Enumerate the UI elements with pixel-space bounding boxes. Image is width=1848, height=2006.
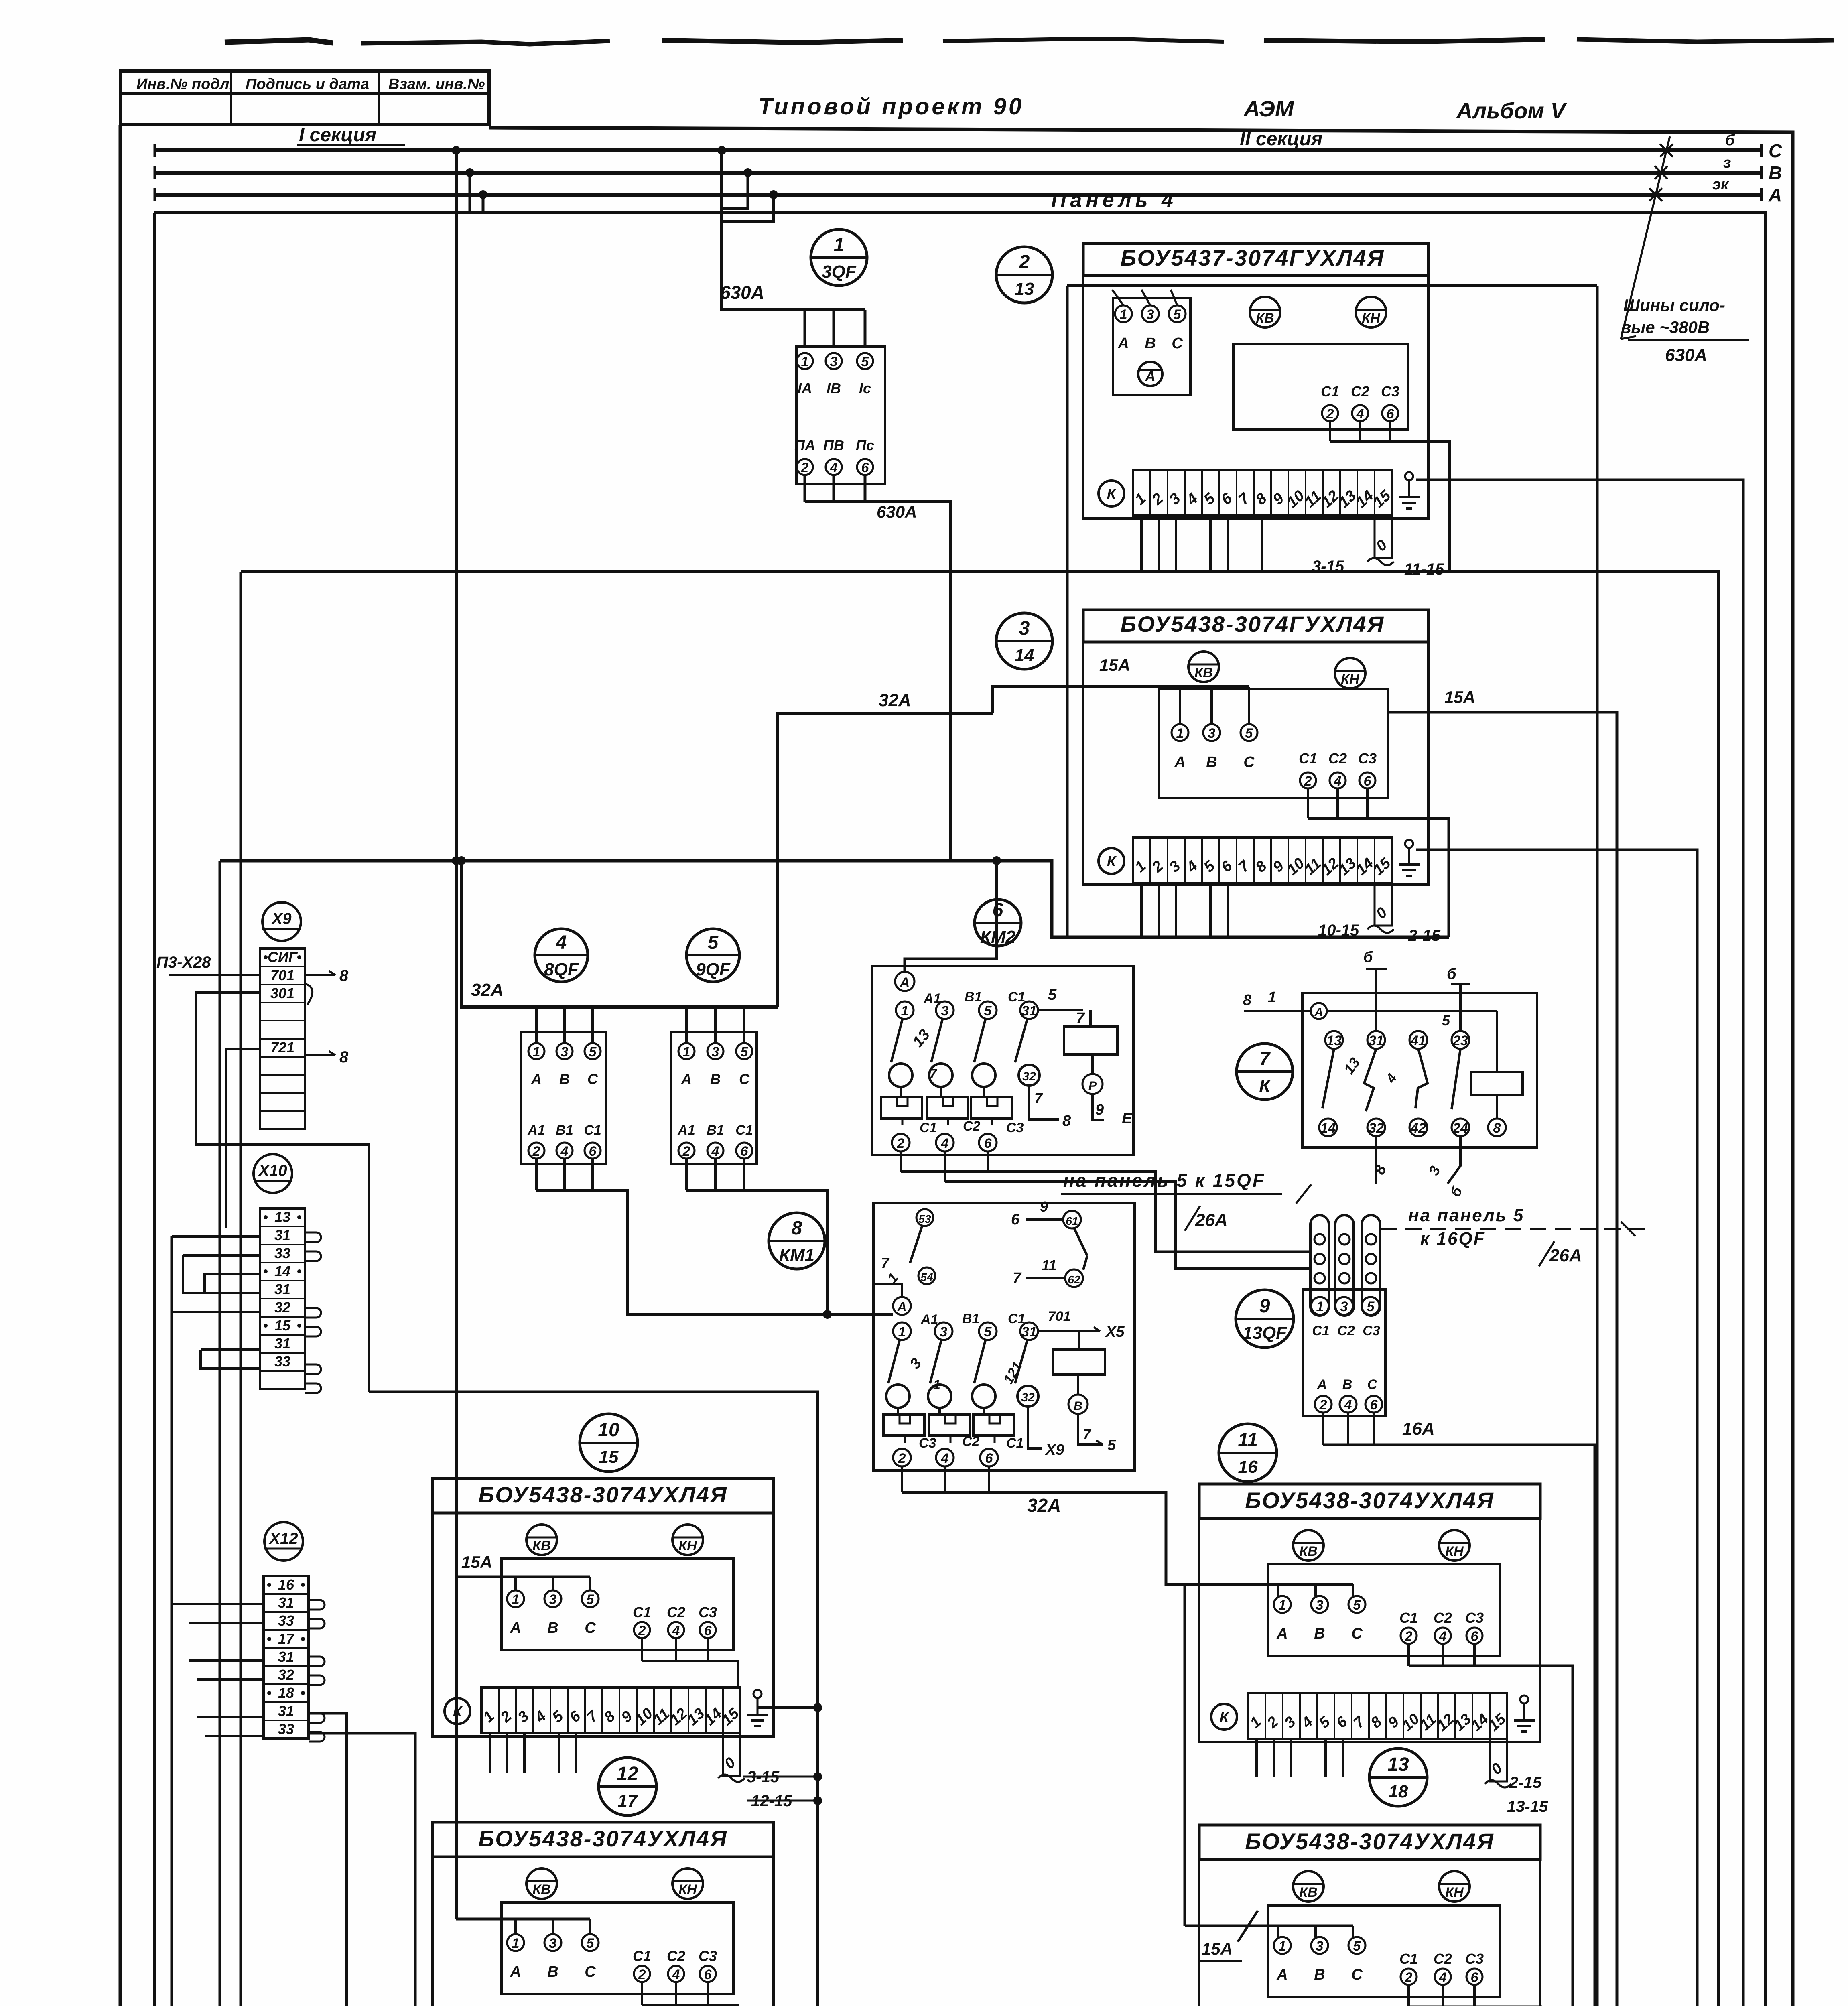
svg-text:2: 2 — [801, 460, 809, 475]
wire: right boundary vertical x=3981 — [1596, 286, 1599, 2006]
svg-text:1: 1 — [898, 1324, 906, 1340]
svg-text:С2: С2 — [667, 1604, 685, 1620]
connector strip Х12 — [264, 1576, 309, 1738]
wire: bundle line L1 to right column — [241, 572, 1719, 2006]
svg-text:9QF: 9QF — [696, 960, 731, 979]
svg-text:А: А — [1314, 1006, 1323, 1019]
svg-text:15А: 15А — [461, 1553, 492, 1572]
svg-text:С1: С1 — [1006, 1435, 1024, 1451]
svg-text:6: 6 — [589, 1144, 597, 1159]
svg-text:6: 6 — [1364, 774, 1372, 789]
connector Х10 position circle — [254, 1154, 292, 1193]
svg-text:С2: С2 — [1434, 1951, 1452, 1967]
svg-text:С3: С3 — [1006, 1120, 1024, 1135]
connector Х9 position circle — [262, 902, 301, 941]
svg-text:В: В — [547, 1620, 558, 1636]
svg-text:14: 14 — [1320, 1121, 1336, 1136]
pins 1,3,5 (А В С) of unit 17 — [507, 1934, 524, 1951]
indicator lamp КВ of unit 17 — [526, 1868, 557, 1899]
wire: 9QF output bundle — [685, 1159, 688, 1190]
svg-text:В: В — [1206, 754, 1217, 771]
wires: КМ1 contacts to thermal elements — [897, 1408, 899, 1415]
svg-text:Х9: Х9 — [1045, 1442, 1064, 1458]
svg-text:В1: В1 — [556, 1123, 573, 1138]
svg-text:С3: С3 — [1358, 750, 1377, 767]
wire: relay К up-wires with б labels — [1375, 969, 1377, 1031]
svg-text:2: 2 — [1405, 1970, 1413, 1985]
svg-text:6: 6 — [1471, 1629, 1479, 1644]
svg-text:3: 3 — [830, 354, 838, 370]
wire: riser to К3 — [309, 1733, 415, 2006]
contactor position circle 6/КМ2 — [975, 899, 1021, 946]
relay К bottom pins 14,32,42,24,8 — [1319, 1119, 1337, 1136]
svg-text:К: К — [1107, 853, 1117, 869]
svg-text:630А: 630А — [1665, 345, 1707, 365]
unit 17 control block БОУ5438-3074УХЛ4Я — [433, 1822, 774, 1857]
svg-text:8: 8 — [1062, 1113, 1071, 1129]
svg-text:В: В — [1074, 1399, 1082, 1413]
svg-text:1: 1 — [512, 1592, 520, 1607]
position circle 13/18 — [1369, 1748, 1427, 1806]
svg-text:С3: С3 — [699, 1948, 717, 1964]
svg-text:1: 1 — [801, 354, 809, 370]
svg-text:С2: С2 — [1434, 1610, 1452, 1626]
svg-text:32: 32 — [278, 1667, 294, 1683]
КМ2 pins А1 В1 С1 row — [896, 1001, 914, 1019]
svg-text:42: 42 — [1410, 1121, 1426, 1136]
svg-text:B: B — [1769, 162, 1782, 183]
wire: cell 0 squiggle of unit 15 — [718, 1775, 745, 1782]
wire: X10 left U-loop — [205, 1274, 260, 1293]
svg-text:13: 13 — [274, 1209, 290, 1225]
svg-text:В: В — [710, 1071, 721, 1087]
svg-text:КВ: КВ — [532, 1882, 550, 1897]
inner box of unit 15 — [502, 1559, 733, 1650]
svg-text:С1: С1 — [1321, 383, 1339, 400]
svg-text:А: А — [510, 1620, 521, 1636]
svg-text:3: 3 — [941, 1003, 949, 1019]
КМ2 coil — [1064, 1027, 1117, 1054]
svg-text:КВ: КВ — [1299, 1885, 1317, 1900]
svg-text:6: 6 — [704, 1623, 712, 1639]
svg-text:2: 2 — [897, 1136, 905, 1151]
terminal box with pins 1,3,5 of unit 13 — [1113, 298, 1190, 395]
svg-text:б: б — [1363, 949, 1373, 966]
svg-text:2-15: 2-15 — [1509, 1774, 1542, 1791]
svg-text:С1: С1 — [633, 1604, 651, 1620]
value label 26А (к 15QF) — [1185, 1206, 1200, 1231]
wire: КМ1 В down to 5 — [1078, 1414, 1103, 1444]
svg-text:11: 11 — [1238, 1429, 1258, 1451]
svg-text:701: 701 — [1048, 1309, 1071, 1324]
svg-text:А: А — [1317, 1377, 1327, 1392]
wire: left vertical x=600 — [240, 572, 242, 2006]
svg-text:8: 8 — [1493, 1121, 1501, 1136]
svg-text:К: К — [453, 1703, 463, 1720]
node: bus C tap x=1137 — [452, 146, 461, 155]
contactor КМ1 block — [873, 1203, 1135, 1470]
svg-text:С2: С2 — [1328, 750, 1347, 767]
wire: cell 0 squiggle of unit 14 — [1367, 926, 1394, 933]
wire: stub A to panel top — [482, 195, 485, 213]
wire: 9QF input stubs — [685, 1007, 688, 1043]
svg-text:2: 2 — [1319, 1397, 1327, 1413]
note: Шины силовые ~380В 630А with leader — [1621, 136, 1670, 339]
svg-text:1: 1 — [1268, 989, 1276, 1006]
svg-text:б: б — [1447, 966, 1457, 983]
svg-text:13: 13 — [1326, 1033, 1342, 1048]
svg-text:7: 7 — [1013, 1270, 1022, 1287]
svg-text:7: 7 — [1083, 1427, 1092, 1442]
indicator lamp КВ of unit 14 — [1188, 652, 1219, 682]
svg-text:КВ: КВ — [1256, 311, 1274, 326]
svg-text:31: 31 — [278, 1649, 294, 1665]
svg-text:14: 14 — [274, 1263, 290, 1279]
svg-text:6: 6 — [1471, 1970, 1479, 1985]
indicator lamp КВ of unit 13 — [1250, 297, 1280, 327]
unit 13 control block БОУ5437-3074ГУХЛ4Я — [1083, 244, 1428, 276]
svg-text:15: 15 — [599, 1447, 619, 1467]
svg-text:4: 4 — [830, 460, 838, 475]
svg-text:I секция: I секция — [299, 124, 376, 146]
svg-text:4: 4 — [672, 1623, 680, 1639]
svg-text:5: 5 — [984, 1003, 992, 1019]
svg-text:С: С — [585, 1963, 596, 1980]
svg-text:5: 5 — [1174, 307, 1182, 322]
svg-text:1: 1 — [933, 1377, 940, 1392]
svg-text:КН: КН — [678, 1538, 697, 1553]
svg-text:31: 31 — [278, 1594, 294, 1611]
svg-text:18: 18 — [1389, 1782, 1408, 1801]
pins 1,3,5 (А В С) of unit 15 — [507, 1590, 524, 1607]
connector strip Х9 — [260, 948, 305, 1129]
svg-text:1: 1 — [1316, 1299, 1324, 1314]
wire: 3QF feeder from buses — [722, 173, 748, 209]
svg-text:4: 4 — [1439, 1629, 1447, 1644]
wires: Х12 row connections — [172, 1603, 264, 1605]
pins 1,3,5 (А В С) of unit 16 — [1274, 1596, 1291, 1613]
svg-text:6: 6 — [985, 1451, 993, 1466]
svg-text:5: 5 — [741, 1044, 749, 1060]
svg-text:5: 5 — [1245, 726, 1253, 741]
svg-text:С3: С3 — [919, 1435, 936, 1451]
svg-text:Х10: Х10 — [258, 1162, 287, 1180]
svg-text:С: С — [1351, 1625, 1363, 1642]
svg-text:БОУ5438-3074ГУХЛ4Я: БОУ5438-3074ГУХЛ4Я — [1121, 611, 1385, 637]
svg-text:Пс: Пс — [856, 437, 874, 453]
svg-text:1: 1 — [901, 1003, 909, 1019]
svg-text:Р: Р — [1088, 1079, 1097, 1092]
wire: cell 0 to bundle of unit 13 — [1367, 558, 1394, 565]
svg-text:С3: С3 — [1465, 1951, 1484, 1967]
svg-text:А: А — [510, 1963, 521, 1980]
position circle 3/14 — [996, 613, 1052, 669]
wire: КМ2 32 down to 8 — [1029, 1086, 1059, 1119]
svg-text:Е: Е — [1122, 1110, 1133, 1127]
svg-text:С1: С1 — [1312, 1323, 1329, 1338]
circuit breaker QF1 position circle 1/3QF — [811, 229, 867, 286]
svg-text:6: 6 — [704, 1967, 712, 1982]
svg-text:В: В — [1145, 335, 1156, 352]
svg-text:17: 17 — [278, 1630, 295, 1647]
wire: relay К feed with labels 8,1 — [1244, 1010, 1311, 1012]
bus A — [155, 193, 1761, 197]
wires: strip stubs of unit 16 — [1255, 1739, 1258, 1777]
svg-text:4: 4 — [1439, 1970, 1447, 1985]
svg-text:C: C — [1769, 140, 1782, 161]
node: bus A tap x=1204 — [479, 190, 487, 199]
wire: cell 0 squiggle of unit 16 — [1485, 1780, 1511, 1787]
pins 1,3,5 (А В С) of unit 18 — [1274, 1937, 1291, 1954]
svg-text:5: 5 — [984, 1324, 992, 1340]
indicator lamp КН of unit 16 — [1439, 1530, 1470, 1561]
svg-text:2: 2 — [1326, 406, 1334, 422]
svg-text:2: 2 — [682, 1144, 690, 1159]
bus B — [155, 171, 1761, 175]
circuit breaker position circle 9/13QF — [1236, 1290, 1294, 1348]
indicator lamp КН of unit 13 — [1356, 297, 1386, 327]
svg-text:3: 3 — [1147, 307, 1154, 322]
relay position circle 7/К — [1237, 1044, 1293, 1100]
wires: КМ2 contacts to thermal elements — [900, 1087, 902, 1097]
svg-text:54: 54 — [920, 1271, 933, 1283]
svg-text:4: 4 — [711, 1144, 719, 1159]
svg-text:Подпись и дата: Подпись и дата — [246, 76, 369, 93]
svg-text:14: 14 — [1015, 646, 1034, 665]
svg-text:15: 15 — [274, 1317, 291, 1334]
svg-text:9: 9 — [1040, 1198, 1048, 1215]
КМ1 auxiliary circle В — [1068, 1395, 1088, 1414]
svg-text:А1: А1 — [920, 1312, 938, 1327]
inner box of unit 17 — [502, 1902, 733, 1994]
svg-text:В1: В1 — [707, 1123, 724, 1138]
КМ1 pins А1 В1 С1 row — [893, 1322, 911, 1340]
svg-text:3: 3 — [712, 1044, 719, 1060]
terminal strip К of unit 15 — [481, 1687, 740, 1733]
svg-text:6: 6 — [1387, 406, 1395, 422]
wires: strip stubs of unit 14 — [1140, 883, 1143, 937]
svg-text:ПВ: ПВ — [823, 437, 844, 453]
svg-text:7: 7 — [1034, 1090, 1043, 1107]
svg-text:С: С — [1367, 1377, 1377, 1392]
svg-text:С2: С2 — [667, 1948, 685, 1964]
svg-text:А: А — [1276, 1966, 1288, 1983]
wire: 3QF output bundle — [804, 475, 806, 501]
wire: left riser x=428 (to К2) — [171, 1236, 173, 2006]
circuit breaker 8QF block — [521, 1032, 606, 1164]
svg-text:А: А — [1276, 1625, 1288, 1642]
torn paper top edge — [225, 39, 1834, 44]
svg-text:8: 8 — [1243, 992, 1252, 1009]
svg-text:3QF: 3QF — [822, 262, 857, 282]
svg-text:С3: С3 — [1465, 1610, 1484, 1626]
position circle 11/16 — [1219, 1424, 1277, 1482]
indicator lamp КН of unit 14 — [1335, 658, 1365, 688]
svg-text:А: А — [1768, 185, 1782, 205]
svg-text:С: С — [585, 1620, 596, 1636]
connector hooks of Х12 — [309, 1600, 325, 1610]
node: bus B tap for 3QF — [743, 168, 752, 177]
wire: relay А to coil — [1327, 1010, 1497, 1012]
svg-text:5: 5 — [861, 354, 869, 370]
svg-text:13-15: 13-15 — [1507, 1798, 1548, 1815]
svg-text:26А: 26А — [1549, 1246, 1582, 1265]
position circle 12/17 — [599, 1758, 656, 1815]
svg-text:7: 7 — [1259, 1048, 1271, 1070]
svg-text:3: 3 — [549, 1936, 557, 1951]
svg-text:2: 2 — [638, 1623, 646, 1639]
inner box of unit 18 — [1268, 1905, 1500, 1997]
svg-text:КВ: КВ — [1299, 1544, 1317, 1559]
svg-text:СИГ: СИГ — [268, 949, 298, 965]
wire: relay К pin 32 down, label 8 — [1375, 1136, 1377, 1184]
svg-text:II секция: II секция — [1240, 128, 1322, 150]
svg-text:КН: КН — [678, 1882, 697, 1897]
wire: КМ1 output bundle 32А — [901, 1466, 903, 1492]
svg-text:Шины сило-: Шины сило- — [1623, 296, 1725, 315]
svg-text:5: 5 — [1353, 1598, 1361, 1613]
svg-text:Iс: Iс — [859, 380, 871, 396]
svg-text:эк: эк — [1712, 176, 1729, 193]
wire: relay К pin 24 down, labels 3 б — [1448, 1136, 1460, 1184]
svg-text:13: 13 — [1387, 1754, 1409, 1775]
svg-text:53: 53 — [918, 1213, 931, 1225]
wire: feed 15А to unit 18 with break mark — [1185, 1925, 1353, 1927]
svg-text:1: 1 — [1279, 1939, 1286, 1954]
svg-text:62: 62 — [1068, 1273, 1080, 1286]
terminal А of relay К — [1311, 1003, 1327, 1019]
svg-text:В: В — [559, 1071, 570, 1087]
wire: feed to unit 16 — [1185, 1583, 1353, 1586]
svg-text:4: 4 — [941, 1136, 949, 1151]
svg-text:6: 6 — [984, 1136, 992, 1151]
svg-text:31: 31 — [274, 1335, 290, 1352]
svg-text:А: А — [1145, 368, 1156, 384]
svg-text:15А: 15А — [1099, 656, 1130, 674]
svg-text:С2: С2 — [963, 1119, 981, 1134]
indicator lamp КВ of unit 18 — [1293, 1871, 1324, 1902]
svg-text:31: 31 — [274, 1227, 290, 1243]
svg-text:24: 24 — [1452, 1121, 1468, 1136]
wire: unit 18 pins 2,4,6 bundle — [1407, 1985, 1410, 2006]
svg-text:2: 2 — [638, 1967, 646, 1982]
svg-text:31: 31 — [274, 1281, 290, 1297]
svg-text:5: 5 — [589, 1044, 597, 1060]
svg-text:С: С — [587, 1071, 598, 1087]
svg-text:2: 2 — [1019, 252, 1030, 273]
wire: 13QF output bundle 16А — [1322, 1413, 1324, 1445]
wire: unit 14 ground wire to right column — [1416, 850, 1697, 2006]
svg-text:3: 3 — [940, 1324, 948, 1340]
wires: strip stubs of unit 15 — [489, 1733, 491, 1773]
svg-text:32А: 32А — [1027, 1495, 1061, 1516]
svg-text:32: 32 — [1021, 1391, 1035, 1404]
svg-text:4: 4 — [1334, 774, 1342, 789]
svg-text:15А: 15А — [1444, 688, 1475, 707]
wire: left vertical x=548 down to bottom — [220, 861, 754, 2006]
wire: 32А feeder from breakers to unit 14 — [778, 713, 993, 1007]
svg-text:вые ~380В: вые ~380В — [1621, 318, 1710, 337]
svg-text:ПА: ПА — [794, 437, 815, 453]
svg-text:1: 1 — [1120, 307, 1127, 322]
panel 4 enclosure frame — [154, 213, 1765, 2006]
svg-text:32: 32 — [274, 1299, 290, 1316]
svg-text:К: К — [1259, 1076, 1271, 1096]
wire: Х9 row 721 to left riser — [226, 1049, 260, 1228]
svg-text:31: 31 — [1021, 1003, 1037, 1019]
svg-text:41: 41 — [1410, 1033, 1426, 1048]
svg-text:3: 3 — [1316, 1939, 1324, 1954]
wire: long vertical feeder x=1137 — [455, 150, 458, 1919]
svg-text:5: 5 — [587, 1592, 595, 1607]
inner box of unit 13 — [1233, 344, 1408, 430]
wire: КМ2 output bundle to connector — [900, 1151, 902, 1172]
inner box of unit 16 — [1268, 1564, 1500, 1656]
indicator lamp КН of unit 15 — [672, 1525, 703, 1555]
svg-text:1: 1 — [683, 1044, 690, 1060]
svg-text:А: А — [900, 975, 910, 990]
svg-text:В1: В1 — [965, 989, 982, 1005]
svg-text:А: А — [897, 1299, 906, 1314]
wire: riser to К15-1 — [309, 1713, 347, 2006]
svg-text:С1: С1 — [584, 1123, 601, 1138]
wire: Х9 row 301 to left riser — [196, 993, 369, 1392]
connector strip Х10 — [260, 1208, 305, 1389]
svg-text:1: 1 — [834, 234, 845, 256]
svg-text:С: С — [1351, 1966, 1363, 1983]
svg-text:11-15: 11-15 — [1404, 560, 1444, 578]
svg-text:7: 7 — [929, 1066, 938, 1082]
svg-text:61: 61 — [1066, 1215, 1078, 1227]
svg-text:33: 33 — [274, 1353, 290, 1370]
connector hooks of Х10 — [305, 1232, 321, 1242]
indicator lamp КВ of unit 15 — [526, 1525, 557, 1555]
svg-text:13: 13 — [1015, 279, 1034, 299]
КМ1 coil — [1053, 1350, 1105, 1375]
svg-text:18: 18 — [278, 1685, 294, 1701]
wire: Х9 row 721 outgoing arrow — [305, 1054, 335, 1056]
wire: distribution line y=2145 — [220, 861, 1449, 937]
КМ1 auxiliary contact 53-54 — [916, 1209, 933, 1226]
svg-text:КМ1: КМ1 — [779, 1245, 814, 1265]
relay К coil — [1471, 1072, 1523, 1095]
svg-text:2: 2 — [1304, 774, 1312, 789]
svg-text:32А: 32А — [879, 690, 911, 710]
svg-text:3: 3 — [1340, 1299, 1348, 1314]
svg-text:В: В — [1314, 1625, 1325, 1642]
indicator lamp КН of unit 18 — [1439, 1871, 1470, 1902]
wire: unit 15 pins 2,4,6 bundle — [641, 1638, 643, 1661]
svg-text:6: 6 — [741, 1144, 749, 1159]
svg-text:БОУ5438-3074УХЛ4Я: БОУ5438-3074УХЛ4Я — [478, 1826, 727, 1851]
contactor position circle 8/КМ1 — [769, 1213, 825, 1269]
svg-text:Х12: Х12 — [268, 1530, 298, 1547]
svg-text:12: 12 — [617, 1763, 638, 1785]
svg-text:1: 1 — [533, 1044, 540, 1060]
wire: unit 16 pins 2,4,6 bundle — [1407, 1644, 1410, 1666]
svg-text:А1: А1 — [527, 1123, 545, 1138]
svg-text:В: В — [1342, 1377, 1352, 1392]
svg-text:С: С — [1243, 754, 1255, 771]
svg-text:БОУ5437-3074ГУХЛ4Я: БОУ5437-3074ГУХЛ4Я — [1121, 245, 1385, 270]
svg-text:КН: КН — [1362, 311, 1381, 326]
svg-text:С1: С1 — [1399, 1610, 1418, 1626]
pins 1,3,5 (А В С) of unit 14 — [1172, 724, 1188, 741]
svg-text:10: 10 — [598, 1419, 619, 1441]
svg-text:С: С — [739, 1071, 750, 1087]
svg-text:б: б — [1725, 132, 1735, 149]
svg-text:31: 31 — [278, 1703, 294, 1719]
